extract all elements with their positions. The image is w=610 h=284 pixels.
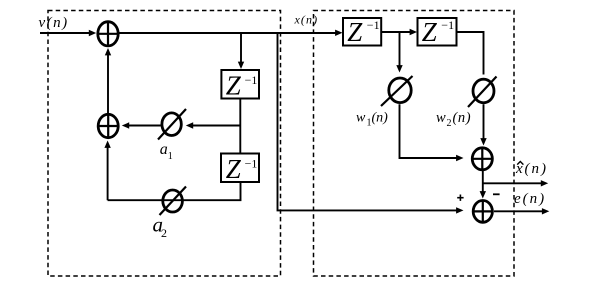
delay block Z4 — [418, 17, 457, 47]
svg-text:(n): (n) — [525, 161, 549, 177]
svg-text:Z: Z — [347, 17, 363, 47]
plus sign at A4 — [457, 195, 463, 201]
label a1 — [160, 141, 173, 162]
summing junction S1 — [98, 22, 118, 46]
left dashed box (AR model) — [48, 11, 281, 277]
svg-text:−1: −1 — [367, 18, 380, 32]
svg-text:v(n): v(n) — [39, 15, 69, 31]
multiplier w2 — [468, 77, 497, 108]
svg-text:−1: −1 — [245, 73, 258, 87]
wire S2 to S1 — [105, 48, 111, 113]
wire A3 to A4 — [480, 171, 486, 199]
summing junction S2 — [98, 114, 118, 137]
svg-text:Z: Z — [226, 154, 242, 184]
svg-text:Z: Z — [226, 71, 242, 101]
wire tap down to Z1 — [238, 33, 244, 69]
wire Z2 to a2 feedback — [108, 182, 241, 200]
multiplier w1 — [381, 76, 413, 106]
multiplier a1 — [158, 109, 186, 140]
label a2 — [153, 212, 168, 240]
svg-text:−1: −1 — [441, 18, 454, 32]
wire w2 to A3 — [480, 104, 486, 145]
wire tap x(n) down to e adder — [278, 33, 464, 214]
svg-text:−1: −1 — [245, 157, 258, 171]
svg-text:x(n): x(n) — [294, 13, 319, 27]
right dashed box (adaptive predictor) — [314, 11, 515, 277]
wire Z3 to Z4 — [381, 29, 417, 35]
label xhat(n) — [515, 161, 548, 177]
svg-text:a: a — [160, 141, 168, 158]
wire tap down to w1 — [396, 32, 402, 73]
svg-text:w: w — [436, 110, 446, 126]
wire v(n) input — [40, 30, 96, 36]
svg-text:w: w — [356, 111, 366, 126]
summing junction A3 — [472, 148, 492, 170]
label w1(n) — [356, 111, 388, 129]
svg-text:(n): (n) — [453, 110, 472, 126]
label w2(n) — [436, 110, 471, 129]
minus sign at A4 — [493, 193, 500, 195]
wire tap to a1 — [186, 122, 241, 128]
wire x(n) main — [120, 30, 343, 36]
svg-text:e(n): e(n) — [514, 191, 546, 207]
delay block Z1 — [221, 70, 259, 101]
svg-text:2: 2 — [447, 118, 452, 129]
svg-text:(n): (n) — [372, 111, 389, 126]
delay block Z2 — [221, 154, 259, 185]
delay block Z3 — [343, 17, 381, 47]
multiplier a2 — [160, 187, 187, 216]
svg-text:Z: Z — [422, 17, 438, 47]
summing junction A4 — [473, 201, 492, 223]
wire Z1 to Z2 — [239, 99, 241, 154]
svg-text:1: 1 — [168, 151, 173, 162]
wire a1 to S2 — [122, 122, 161, 128]
wire Z4 out to w2 — [457, 32, 484, 75]
wire w1 to A3 — [400, 104, 464, 161]
svg-text:2: 2 — [161, 226, 167, 240]
wire e(n) output — [494, 208, 549, 214]
svg-text:x: x — [515, 161, 525, 177]
wire feedback up to S2 — [104, 141, 110, 201]
wire xhat output — [483, 180, 548, 186]
